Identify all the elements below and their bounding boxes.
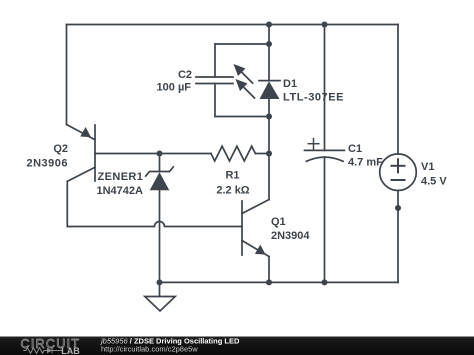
transistor Q2 [67,125,96,182]
label C1 [348,143,383,168]
wire right drop to V1 top [397,25,399,155]
node ground junction [157,279,163,285]
node V1 negative terminal [395,205,401,211]
node top rail / C1 branch [322,22,328,28]
label D1 [283,78,344,104]
svg-text:2N3906: 2N3906 [26,158,68,170]
wire D1/Q1-collector branch [268,117,270,200]
svg-text:2.2 kΩ: 2.2 kΩ [216,185,249,197]
node box top right [266,41,272,47]
voltage source V1 [380,154,417,283]
wire left drop to Q2 emitter [66,25,68,125]
node C1 bottom / rail [322,279,328,285]
wire Q1 emitter down [268,257,270,283]
wire C2 branch (box bottom edge) [215,116,269,118]
zener diode ZENER1 [146,154,174,283]
node top rail / D1 branch [266,22,272,28]
node box bottom right [266,114,272,120]
svg-text:2N3904: 2N3904 [271,230,310,242]
svg-text:http://circuitlab.com/c2p8e5w: http://circuitlab.com/c2p8e5w [101,345,198,354]
wire top rail [67,24,399,26]
LED D1 [234,44,281,117]
capacitor C1 [305,25,345,283]
svg-text:100 µF: 100 µF [157,82,192,94]
wire bottom rail [160,281,399,283]
label Q1 [271,216,310,242]
svg-text:4.5 V: 4.5 V [421,176,447,188]
wire Q2 base to R1 [95,153,211,155]
wire Q2 collector to Q1 base (hop over zener branch) [67,222,242,227]
CircuitLab logo: resistor squiggle with diode [23,348,63,353]
label R1 [216,170,249,197]
svg-text:D1: D1 [283,78,297,90]
svg-text:Q1: Q1 [271,216,286,228]
D1 light arrow 1 [239,70,253,84]
label C2 [157,69,192,94]
label V1 [421,161,447,188]
D1 light arrow 2 [241,85,255,99]
svg-text:ZENER1: ZENER1 [98,171,144,183]
ground [145,282,175,311]
label ZENER1 [97,171,144,197]
capacitor C2 [196,44,233,117]
svg-text:C1: C1 [348,143,362,155]
transistor Q1 [242,200,269,257]
node Q1 emitter / rail [266,279,272,285]
label Q2 [26,143,68,170]
svg-text:R1: R1 [225,170,239,182]
svg-text:LAB: LAB [61,346,80,355]
wire C2 branch (box top edge) [215,43,269,45]
svg-text:LTL-307EE: LTL-307EE [283,92,344,104]
wire Q2 collector down [66,181,68,226]
svg-text:4.7 mF: 4.7 mF [348,156,383,168]
wire rail to C2-D1 box [268,25,270,45]
node base wire / zener branch [157,151,163,157]
resistor R1 [211,146,269,161]
svg-text:C2: C2 [178,69,192,81]
svg-text:1N4742A: 1N4742A [97,185,144,197]
node R1 right / collector branch [266,151,272,157]
svg-text:Q2: Q2 [53,143,68,155]
svg-text:V1: V1 [421,161,434,173]
